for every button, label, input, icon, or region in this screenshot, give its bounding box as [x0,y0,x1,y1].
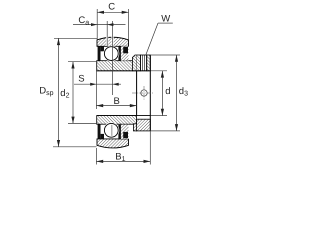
svg-text:B: B [114,96,120,107]
svg-text:C: C [108,2,115,13]
svg-text:S: S [78,74,84,85]
svg-text:d: d [165,86,170,97]
svg-text:W: W [161,13,170,24]
